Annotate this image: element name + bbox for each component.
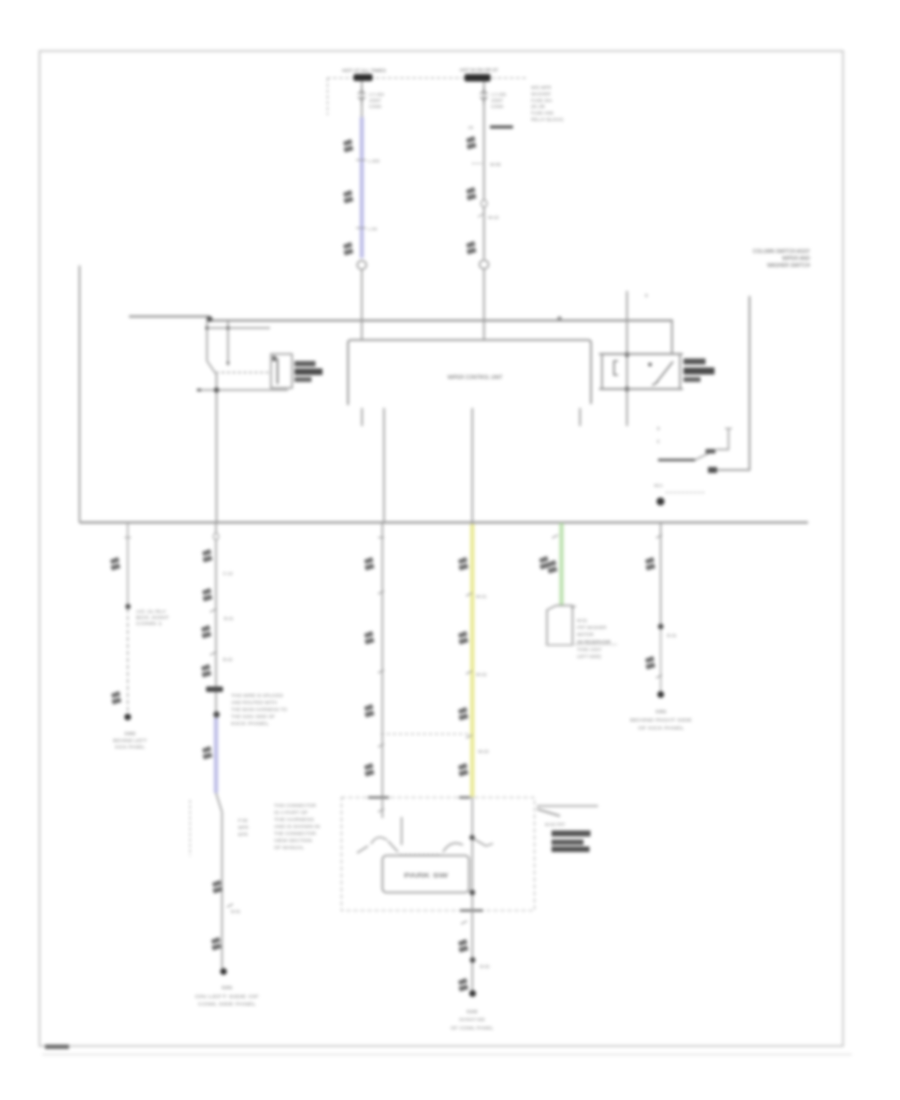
svg-text:NCA: NCA [654,483,663,488]
svg-text:FUSE AND: FUSE AND [531,111,554,116]
junction dot [213,711,219,717]
inline connector symbol [202,588,213,602]
top dashed feed line [327,77,526,79]
inline connector symbol [458,763,469,777]
svg-text:FUSE 20A: FUSE 20A [531,98,552,103]
left contact set [357,846,368,853]
wire segment [695,452,712,461]
wire segment [207,361,216,374]
svg-text:BEHIND LEFT: BEHIND LEFT [113,738,147,743]
svg-text:COWL SIDE PANEL: COWL SIDE PANEL [198,1002,257,1007]
wire labels left run [356,159,366,161]
wire segment [466,593,472,596]
inline connector symbol [458,631,469,645]
svg-text:W-21: W-21 [476,594,487,599]
inline connector symbol [458,707,469,721]
wire segment (horizontal) [545,644,617,646]
svg-text:B-31: B-31 [667,633,677,638]
wire segment [210,609,216,612]
ground terminal dot [220,968,227,975]
wire segment [461,921,467,924]
svg-text:2 C-304: 2 C-304 [369,92,385,97]
left dashed drop [327,78,329,115]
inline connector symbol [547,560,558,574]
svg-text:HOT IN ON OR ST: HOT IN ON OR ST [460,68,498,73]
wire path [388,841,398,852]
right contact set [443,843,463,852]
svg-text:B-02: B-02 [480,964,490,969]
svg-text:ON RIGHT SIDE: ON RIGHT SIDE [459,1017,485,1022]
breaker label rows [295,361,316,367]
wiper relay box [602,354,680,389]
junction dot [125,604,130,609]
svg-text:B: B [645,293,648,298]
wire segment [552,535,558,538]
wire A into box [381,797,383,818]
inline connector symbol [458,939,469,953]
wire segment (vertical) [361,117,363,258]
svg-text:THIS CONNECTOR: THIS CONNECTOR [274,803,316,808]
svg-text:OF KICK PANEL: OF KICK PANEL [638,726,685,731]
svg-text:CONN: CONN [491,104,503,109]
inline connectors on right wire [466,136,477,150]
wire segment (vertical) [216,374,218,522]
wire segment (horizontal) [80,521,809,523]
wire segment (vertical) [383,408,385,523]
wire to bus (L) [361,270,363,340]
upper bus left segment [129,315,209,317]
svg-text:C-12: C-12 [223,571,233,576]
svg-text:WPR: WPR [238,825,249,830]
bus corner down to relay [671,321,673,355]
wire segment [466,735,472,738]
svg-text:W/S WPR: W/S WPR [531,85,552,90]
svg-text:AND ROUTED WITH: AND ROUTED WITH [231,700,277,705]
junction dot [658,624,664,630]
wire segment (vertical) [221,812,223,968]
control unit box (open bottom) [348,340,591,405]
svg-text:1 C-305: 1 C-305 [491,92,507,97]
svg-text:G201: G201 [221,985,233,990]
wire segment [216,793,222,812]
svg-text:W-09: W-09 [490,162,501,167]
svg-text:W-22: W-22 [476,672,487,677]
junction dot [470,890,476,896]
svg-text:WIPER CONTROL UNIT: WIPER CONTROL UNIT [447,375,502,381]
label block [684,368,715,375]
wire path [371,837,387,844]
wire segment (horizontal) [197,389,201,392]
label block [552,847,590,853]
svg-text:VIEW SECTION: VIEW SECTION [274,838,312,843]
svg-text:B: B [657,426,660,431]
dashed wire segment [189,800,191,856]
junction dot [214,387,219,392]
svg-text:AND IS SHOWN IN: AND IS SHOWN IN [274,824,320,829]
label block [295,377,312,382]
ground terminal dot [469,990,476,997]
inline connector symbol [343,190,354,204]
inline connector symbol [364,704,375,718]
wiper motor label [537,805,598,807]
wire segment (vertical) [579,408,581,426]
dashed wire segment [127,609,129,714]
wire segment (vertical) [227,321,229,363]
svg-text:RELAY BLOCK): RELAY BLOCK) [531,117,564,122]
svg-text:OF MANUAL: OF MANUAL [274,845,305,850]
wire segment (horizontal) [599,388,683,390]
wire segment (vertical) [471,524,473,797]
connector pair on right wire [480,88,487,104]
svg-text:A6: A6 [468,125,474,130]
dashed wire segment [666,492,706,494]
wire path [652,381,658,385]
terminal dot [657,498,665,506]
upper bus main segment [211,319,673,321]
svg-text:ON LEFT SIDE OF: ON LEFT SIDE OF [195,994,259,999]
label block [45,1045,69,1050]
switch contact [658,459,695,461]
dashed tick + label [472,163,483,165]
svg-text:CONN 1: CONN 1 [136,621,163,626]
svg-text:THE HARNESS: THE HARNESS [274,817,314,822]
svg-text:WASHER: WASHER [531,92,551,97]
wire segment (vertical) [215,718,217,793]
svg-text:COLUMN SWITCH ASSY: COLUMN SWITCH ASSY [753,249,811,255]
junction dot [470,957,476,963]
wire segment (horizontal) [460,909,483,911]
relay contact dot [648,363,652,367]
inline connector symbol [364,631,375,645]
junction dot [470,835,475,840]
label block [295,369,323,376]
svg-text:BEHIND RIGHT SIDE: BEHIND RIGHT SIDE [630,718,692,723]
junction oval on right wire [481,200,487,207]
svg-text:P-06: P-06 [238,818,248,823]
washer motor box [547,606,573,646]
park sw inner box [382,856,469,893]
inline connector symbol [201,664,212,678]
svg-text:MOTOR: MOTOR [577,632,594,637]
inline connector symbol [458,978,469,992]
circuit breaker box [271,354,292,388]
svg-text:KICK PANEL: KICK PANEL [115,745,146,750]
relay blade [656,362,673,384]
label block [206,687,223,693]
svg-text:MTR: MTR [238,832,248,837]
relay label rows [684,359,706,365]
svg-text:B-21: B-21 [224,616,234,621]
svg-text:CONN: CONN [369,104,381,109]
inline connector symbol [212,880,223,894]
svg-text:KICK PANEL: KICK PANEL [231,721,270,726]
wire from left fuse tag [361,81,363,118]
wire segment [378,744,384,747]
wire path [716,429,729,450]
wire segment [466,671,472,674]
inline connector symbol [466,241,477,255]
inline connector symbol [364,763,375,777]
wire segment [656,675,662,678]
junction dot [470,835,475,840]
wire segment [571,606,576,608]
svg-text:THE MAIN HARNESS TO: THE MAIN HARNESS TO [231,707,288,712]
bus step [209,317,211,321]
svg-text:M-02 FRT: M-02 FRT [545,822,565,827]
svg-text:L-04: L-04 [368,227,378,232]
relay coil bracket [614,361,618,375]
svg-text:PARK SW: PARK SW [404,873,449,880]
wire segment [378,591,384,594]
pin stubs [361,408,363,426]
inline connector symbol [466,187,477,201]
junction dot [625,387,630,392]
inline connector symbol [111,691,122,705]
inline connector symbol [364,557,375,571]
inline connector symbol [211,937,222,951]
wire (L) lavender run [360,117,364,258]
junction dot [226,326,229,329]
svg-text:JOINT: JOINT [491,98,504,103]
svg-text:A/C 21 RLY: A/C 21 RLY [136,609,166,614]
right return bracket [711,296,750,470]
wire segment [656,535,662,538]
center dashed link [400,854,441,856]
inline connector symbol [458,557,469,571]
junction dot [625,352,630,357]
wire segment [537,809,560,816]
svg-text:IS A PART OF: IS A PART OF [274,810,309,815]
wire segment [227,904,233,907]
wire segment (horizontal) [368,796,389,798]
connector pair on left wire [358,88,365,104]
svg-text:G301: G301 [655,709,667,714]
wire path [486,844,493,847]
wire segment [378,670,384,673]
wire segment [378,809,384,812]
inline connector symbol [110,557,121,571]
connector oval on left wire [357,261,366,270]
wire segment (horizontal) [378,537,384,539]
dashed wire segment [216,372,271,374]
wire segment (horizontal) [199,389,288,391]
svg-text:WIPER AND: WIPER AND [782,256,810,262]
svg-text:FRT WASHER: FRT WASHER [577,625,607,630]
svg-text:WASHER SWITCH: WASHER SWITCH [767,263,810,269]
svg-text:THE CONNECTOR: THE CONNECTOR [274,831,316,836]
wire segment (vertical) [277,358,279,384]
svg-text:L-203: L-203 [368,159,380,164]
svg-text:M-01: M-01 [577,618,588,623]
junction dot [205,326,208,329]
svg-text:THE G201 SIDE OF: THE G201 SIDE OF [231,714,276,719]
ground terminal dot [657,691,664,698]
wire segment (horizontal) [725,428,732,430]
wire path [474,839,486,846]
wire segment (horizontal) [599,353,683,355]
ground terminal dot [124,714,131,721]
label block [552,840,584,846]
wire segment [210,652,216,655]
wire to bus (R) [483,269,485,340]
label block [273,356,277,361]
svg-text:B-22: B-22 [223,657,233,662]
wire segment (vertical) [206,321,208,361]
svg-text:JOINT: JOINT [369,98,382,103]
svg-text:W-23: W-23 [478,749,489,754]
wire B through box [471,797,473,910]
svg-text:W-10: W-10 [488,215,499,220]
left fuse cluster [205,327,270,329]
label block [706,449,716,454]
inline connector symbol [645,656,656,670]
inline connector symbol [343,242,354,256]
wire from right fuse tag [483,82,485,260]
svg-text:TANK ASSY: TANK ASSY [577,647,602,652]
label block [684,377,701,382]
inline connector symbol [645,557,656,571]
svg-text:E: E [657,439,660,444]
svg-text:OF COWL PANEL: OF COWL PANEL [451,1026,495,1031]
label block [490,126,513,129]
svg-text:LEFT SIDE): LEFT SIDE) [577,654,602,659]
label block [708,467,717,473]
svg-text:G402: G402 [124,731,136,736]
wire segment (horizontal) [356,227,366,229]
wire segment (vertical) [626,291,628,426]
wire segment (vertical) [660,629,662,691]
svg-text:G102: G102 [466,1009,478,1014]
svg-text:(IN RESERVOIR: (IN RESERVOIR [577,640,611,645]
wire segment (vertical) [214,718,218,793]
junction dot [557,316,561,320]
wire segment (vertical) [561,523,563,606]
connector oval (R) [479,260,488,269]
inline connector symbol [202,549,213,563]
dashed wire segment [381,733,471,735]
wire segment (vertical) [127,523,129,606]
inline connector symbol [202,746,213,760]
wire segment (horizontal) [42,1054,852,1056]
inline connectors on left wire [343,139,354,153]
wire segment (horizontal) [459,796,470,798]
inline connector symbol [539,556,550,570]
junction dot [207,316,213,322]
connector circle [213,533,218,539]
label block [552,831,591,837]
svg-text:HOT AT ALL TIMES: HOT AT ALL TIMES [342,68,386,73]
fuse tag left (black) [354,74,373,81]
svg-text:BOX JOINT: BOX JOINT [136,615,169,620]
svg-text:THIS WIRE IS SPLICED: THIS WIRE IS SPLICED [231,693,283,698]
inline connector symbol [201,625,212,639]
fuse tag right (black) [465,74,491,82]
wire segment (vertical) [471,408,473,524]
svg-text:B-01: B-01 [231,909,241,914]
tick + label [478,214,483,217]
park switch stub [401,817,403,845]
svg-text:(IN J/B: (IN J/B [531,104,545,109]
wire path [226,362,230,366]
